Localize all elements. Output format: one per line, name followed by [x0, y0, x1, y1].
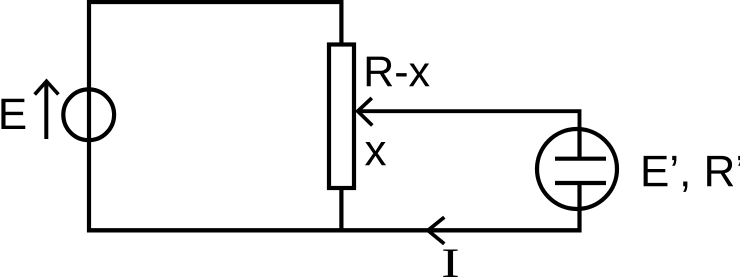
cell E' plate bottom [555, 181, 606, 185]
label E [1, 99, 25, 129]
source E circle [63, 89, 114, 140]
label I [443, 250, 458, 278]
cell E' bottom lead [577, 183, 581, 232]
wire potentiometer bottom lead [339, 188, 343, 231]
arrowhead wiper (points left at resistor) [358, 98, 373, 125]
wire top (E source to potentiometer top) [87, 0, 344, 4]
resistor R (potentiometer body) [329, 45, 354, 189]
wire left (through source E) [87, 0, 91, 233]
cell E' plate top [555, 157, 606, 161]
cell E' circle [537, 129, 617, 209]
wire bottom [87, 228, 582, 232]
label R-x [367, 57, 430, 87]
label E', R' [644, 156, 740, 192]
cell E' top lead [577, 129, 581, 158]
wire wiper tap to cell [359, 111, 580, 158]
arrowhead current I (points left on bottom wire) [428, 217, 444, 244]
arrow up (EMF direction of E) [35, 81, 59, 139]
wire potentiometer top lead [339, 2, 343, 46]
label x [365, 142, 386, 165]
